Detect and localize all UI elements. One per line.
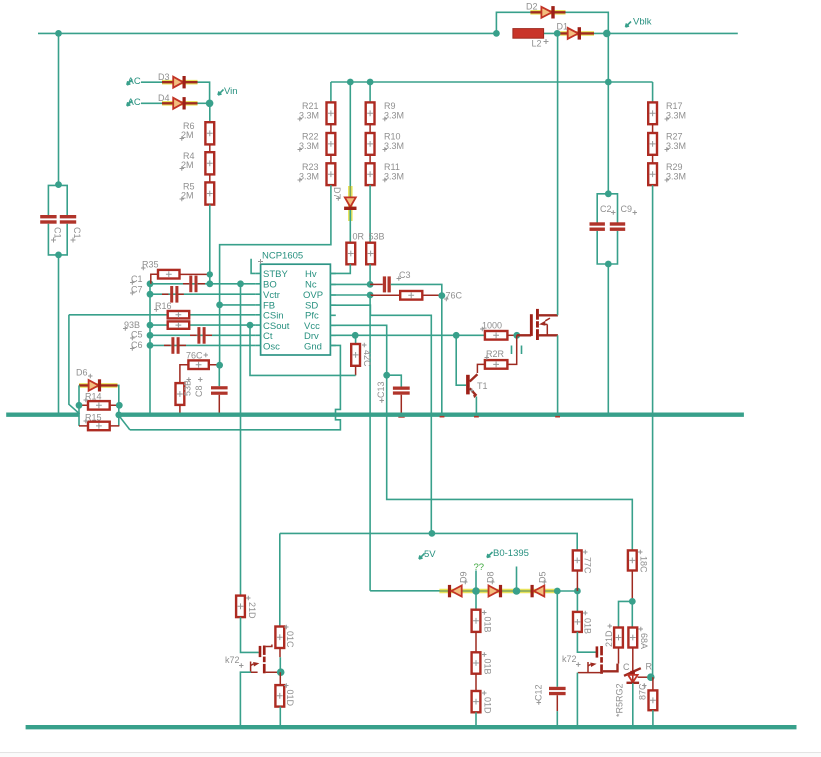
- svg-text:1000: 1000: [482, 321, 502, 331]
- capacitor C13: [387, 375, 410, 417]
- label R5RG2: [615, 683, 625, 717]
- diode D4: [162, 97, 198, 109]
- inductor L2: [513, 29, 544, 39]
- junction rail-R9chain: [367, 79, 374, 86]
- wire rail y=82: [331, 81, 653, 83]
- wire Vcc row riser x386: [330, 325, 632, 550]
- resistor 76C horizontal: [180, 360, 220, 383]
- resistor R16 lower: [168, 321, 190, 328]
- resistor 01B mid second: [472, 632, 481, 674]
- resistor 76C on OVP row: [370, 291, 442, 300]
- wire AC2 to D4: [141, 102, 162, 104]
- label K72 right: [562, 654, 581, 667]
- resistor 42C: [351, 335, 360, 375]
- IC U1 NCP1605 box: [261, 264, 331, 355]
- wire Q2 source to bottom bus: [240, 672, 251, 727]
- svg-text:01D: 01D: [483, 697, 493, 714]
- svg-text:k72: k72: [562, 654, 577, 664]
- resistor R21: [327, 102, 336, 124]
- label 01D left: [285, 690, 295, 707]
- label C5: [130, 330, 143, 341]
- svg-text:??: ??: [474, 562, 485, 573]
- label Vin: [218, 86, 238, 97]
- label R17 3.3M: [665, 101, 687, 121]
- svg-text:3.3M: 3.3M: [666, 172, 686, 182]
- svg-text:Osc: Osc: [263, 342, 280, 353]
- resistor 68A: [628, 601, 637, 667]
- svg-text:D3: D3: [158, 72, 170, 82]
- yellow highlight under diode D2: [530, 10, 565, 15]
- svg-text:3.3M: 3.3M: [666, 141, 686, 151]
- svg-text:Vin: Vin: [224, 86, 238, 97]
- wire R21 chain top corner: [330, 82, 332, 102]
- wire SD row jog to x431 riser: [330, 305, 431, 533]
- transistor Q1 main MOSFET: [517, 309, 558, 340]
- label 01B mid top: [483, 617, 493, 633]
- wire OVP node to diode row: [370, 590, 440, 592]
- junction 93B-x150: [147, 322, 154, 329]
- svg-text:R17: R17: [666, 101, 683, 111]
- diode D1: [560, 27, 594, 39]
- label D5: [538, 571, 548, 583]
- junction L2 left: [493, 30, 500, 37]
- label 1000: [480, 321, 502, 332]
- lead R17-R27: [652, 124, 654, 133]
- svg-text:3.3M: 3.3M: [299, 141, 319, 151]
- svg-text:R22: R22: [302, 132, 319, 142]
- label C9: [621, 204, 638, 215]
- wire D4 to Vin junction: [198, 102, 210, 104]
- wire Q3 source to bottom bus: [576, 673, 578, 728]
- label 01B right: [583, 618, 593, 634]
- net marks II: [512, 346, 522, 355]
- label R10 3.3M: [383, 132, 405, 152]
- diode D9: [448, 585, 462, 597]
- wire Vctr row: [150, 293, 255, 295]
- svg-text:D5: D5: [538, 571, 548, 583]
- yellow highlight under diode D7: [348, 186, 353, 221]
- svg-text:53B: 53B: [369, 232, 385, 242]
- wire R2R right to gate: [507, 335, 516, 364]
- svg-text:Drv: Drv: [304, 331, 319, 342]
- label C6: [130, 340, 143, 351]
- resistor R17: [648, 102, 657, 124]
- label AC upper: [127, 76, 141, 87]
- svg-text:68A: 68A: [639, 633, 649, 649]
- wire STBY stub L: [251, 259, 255, 274]
- svg-text:R27: R27: [666, 132, 683, 142]
- red lead ticks at ground bus: [440, 416, 445, 418]
- yellow highlight under diode D4: [162, 101, 198, 106]
- wire Vblk branch to R17: [652, 82, 654, 102]
- svg-text:01C: 01C: [285, 631, 295, 648]
- svg-text:Gnd: Gnd: [304, 342, 322, 353]
- ground bus upper: [6, 413, 744, 417]
- yellow highlight under diode D3: [162, 80, 198, 85]
- resistor 77C: [573, 550, 582, 591]
- wire riser x150 to ground bus: [149, 284, 151, 413]
- wire Gnd zigzag through bus: [130, 345, 341, 429]
- wire riser x219 FB to C8 node: [219, 305, 221, 365]
- lead R21-R22: [330, 124, 332, 133]
- label R9 3.3M: [383, 101, 405, 121]
- capacitor C1 on BO row: [183, 276, 205, 293]
- label C3: [397, 270, 411, 281]
- svg-text:D6: D6: [76, 368, 88, 378]
- svg-text:21D: 21D: [604, 630, 614, 647]
- resistor R15: [79, 422, 119, 431]
- resistor 18C: [628, 550, 637, 601]
- yellow highlight under diodes D9 D8 D5: [439, 589, 557, 594]
- svg-text:C1: C1: [53, 227, 63, 239]
- resistor 21D left: [236, 596, 245, 618]
- junction gate: [513, 332, 520, 339]
- resistor R35: [151, 270, 209, 284]
- label 93B: [123, 320, 140, 331]
- junction BO-Vin divider: [206, 280, 213, 287]
- wire CSin left leg and diagonal to bus: [69, 315, 80, 414]
- wire 18C feed from Vcc rail: [631, 549, 633, 551]
- diode D2: [530, 6, 565, 18]
- svg-text:3.3M: 3.3M: [299, 111, 319, 121]
- resistor 21D right: [614, 628, 623, 664]
- label R6 2M: [180, 121, 195, 141]
- svg-text:53B: 53B: [183, 380, 193, 396]
- label 21D left: [247, 602, 257, 619]
- junction OVP: [367, 292, 374, 299]
- lead R6-R4: [209, 144, 211, 152]
- svg-text:D7: D7: [332, 187, 342, 199]
- svg-text:C1: C1: [72, 227, 82, 239]
- label R29 3.3M: [665, 162, 687, 182]
- capacitor C8: [211, 365, 228, 412]
- label R35: [141, 260, 159, 271]
- label 76C node: [444, 291, 463, 302]
- lead R27-R29: [652, 155, 654, 164]
- wire D5 to 77C node: [557, 590, 578, 592]
- wire AC1 to D3: [141, 81, 162, 83]
- label R23 3.3M: [298, 162, 320, 182]
- wire R2R left to T1 collector: [477, 364, 485, 373]
- capacitor C5 on Ct row: [190, 327, 212, 344]
- svg-text:BO: BO: [263, 280, 277, 291]
- wire stub B0-1395: [516, 567, 518, 592]
- svg-text:Pfc: Pfc: [305, 311, 319, 322]
- label R11 3.3M: [383, 162, 405, 182]
- wire 01B to gate of Q3: [577, 632, 596, 652]
- label 01D mid bottom: [483, 697, 493, 714]
- capacitor C12: [549, 687, 566, 727]
- svg-text:R11: R11: [384, 162, 400, 172]
- wire 01C top feed: [279, 533, 281, 626]
- resistor 01D mid bottom: [472, 674, 481, 728]
- svg-text:R9: R9: [384, 101, 396, 111]
- label 77C: [583, 557, 593, 574]
- junction C2C9 bottom: [605, 261, 612, 268]
- wire C2 C9 riser x=608: [607, 33, 609, 193]
- wire 53B bottom to Nc row: [369, 264, 371, 284]
- resistor R9: [366, 102, 375, 124]
- svg-text:Vblk: Vblk: [633, 17, 652, 28]
- junction D1 cathode: [603, 30, 611, 38]
- junction rail-x608: [605, 79, 612, 86]
- svg-text:STBY: STBY: [263, 269, 288, 280]
- junction Ct-x150: [147, 332, 154, 339]
- capacitor C3: [370, 276, 442, 295]
- wire CSout to 42C bottom: [250, 325, 356, 375]
- label C1 row: [130, 274, 143, 285]
- resistor R5: [205, 182, 214, 204]
- label D8: [486, 571, 496, 583]
- wire Osc row: [150, 344, 255, 346]
- wire 21D branch from BO row down: [240, 284, 242, 596]
- wire top rail y=33: [38, 32, 496, 34]
- svg-text:k72: k72: [225, 655, 240, 665]
- svg-text:42C: 42C: [362, 350, 372, 367]
- svg-text:21D: 21D: [247, 602, 257, 619]
- junction CSout branch: [247, 322, 254, 329]
- label R16: [154, 301, 172, 312]
- bottom page edge strip: [0, 752, 821, 753]
- junction D9-D8: [472, 587, 480, 595]
- svg-text:3.3M: 3.3M: [384, 172, 404, 182]
- label C2: [600, 204, 616, 215]
- svg-text:C9: C9: [621, 204, 633, 214]
- label 5V: [419, 549, 436, 560]
- svg-text:0R: 0R: [353, 232, 365, 242]
- label NCP1605: [258, 251, 303, 265]
- resistor 87C: [649, 677, 658, 727]
- junction top-left: [55, 30, 62, 37]
- yellow highlight under diode D6: [79, 383, 118, 388]
- wire D1 cathode to right end: [594, 32, 738, 34]
- resistor chain 01B mid top: [472, 591, 481, 632]
- svg-text:01B: 01B: [483, 617, 493, 633]
- label 42C: [362, 350, 372, 367]
- junction C2C9 top: [605, 190, 612, 197]
- label R5 2M: [180, 182, 195, 202]
- label 76C: [186, 351, 208, 361]
- diode D3: [162, 76, 198, 88]
- wire BO row: [150, 283, 255, 285]
- svg-text:D8: D8: [486, 571, 496, 583]
- svg-text:C12: C12: [534, 684, 544, 701]
- resistor 1000: [485, 331, 517, 340]
- svg-text:D4: D4: [158, 93, 170, 103]
- wire CSin row: [69, 314, 255, 316]
- wire T1 emitter to bus: [475, 397, 477, 413]
- svg-text:C: C: [623, 662, 630, 672]
- junction FB: [216, 302, 223, 309]
- wire top rail L2 to D1: [544, 32, 560, 34]
- label Vblk: [626, 17, 652, 28]
- resistor R10: [366, 133, 375, 155]
- diode D7: [344, 197, 356, 210]
- capacitor C1 left plates: [40, 215, 56, 224]
- junction R14 right: [116, 402, 123, 409]
- svg-text:3.3M: 3.3M: [384, 141, 404, 151]
- junction Vin: [206, 100, 214, 108]
- label D6: [76, 368, 93, 379]
- wire 21D to gate of Q2: [241, 617, 259, 652]
- resistor 0R: [346, 243, 355, 265]
- label 68A: [639, 633, 649, 649]
- svg-text:D1: D1: [557, 22, 569, 32]
- resistor R16 upper: [168, 311, 190, 318]
- junction zener R node: [647, 673, 655, 681]
- wire Drv row to gate: [330, 334, 485, 336]
- wire D6 R14 R15 left column: [78, 385, 80, 426]
- capacitor C7 on Vctr row: [162, 286, 184, 303]
- capacitor C1 right plates: [60, 215, 76, 224]
- diode D5: [531, 585, 545, 597]
- junction bus right of R15: [115, 412, 122, 419]
- capacitor pair C2 C9 harness: [597, 194, 617, 413]
- svg-text:R29: R29: [666, 162, 683, 172]
- junction Vcc-C13: [383, 372, 390, 379]
- diode D6: [79, 379, 118, 391]
- resistor R29: [648, 163, 657, 185]
- resistor R6: [205, 122, 214, 144]
- wire R29 bottom long run to zener node: [652, 185, 654, 677]
- junction Q2 drain node: [277, 668, 285, 676]
- lead R10-R11: [369, 155, 371, 164]
- svg-text:77C: 77C: [583, 557, 593, 574]
- wire base drive down: [456, 335, 466, 385]
- svg-text:3.3M: 3.3M: [299, 172, 319, 182]
- wire D7 to 0R: [349, 210, 351, 243]
- transistor Q3 K72 right MOSFET: [578, 646, 618, 674]
- junction Vctr-x150: [147, 291, 154, 298]
- capacitor pair C1 C1 top harness: [48, 185, 67, 412]
- label D9: [459, 571, 469, 583]
- resistor R14: [79, 401, 119, 410]
- label T1: [470, 381, 488, 393]
- zener diode D10: [624, 667, 651, 683]
- lead R4-R5: [209, 174, 211, 182]
- svg-text:01D: 01D: [285, 690, 295, 707]
- resistor 01D left: [275, 672, 284, 727]
- label C8: [194, 385, 204, 397]
- junction x431 on y533: [429, 530, 436, 537]
- svg-text:C13: C13: [376, 381, 386, 398]
- wire D3 to Vin corner: [198, 82, 210, 103]
- label R22 3.3M: [298, 132, 320, 152]
- svg-text:NCP1605: NCP1605: [262, 251, 303, 262]
- wire R23 bottom to FB riser: [220, 185, 331, 305]
- wire D7 branch top: [349, 82, 351, 186]
- capacitor C9 plates: [610, 222, 625, 231]
- junction rail-D7: [347, 79, 354, 86]
- svg-text:D2: D2: [526, 2, 538, 12]
- wire C12 feed: [556, 591, 558, 687]
- junction 77C bottom: [574, 588, 581, 595]
- svg-text:B0-1395: B0-1395: [493, 548, 529, 559]
- label 21D right: [604, 630, 614, 647]
- lead R9-R10: [369, 124, 371, 133]
- label 87C: [638, 683, 648, 700]
- resistor R2R: [485, 360, 508, 369]
- ground bus lower: [26, 725, 797, 729]
- label 53B shunt: [183, 380, 193, 396]
- wire 0R bottom to Hv pin: [330, 264, 350, 273]
- capacitor C6 on Osc row: [164, 337, 186, 354]
- wire CSout 93B row: [150, 324, 255, 326]
- wire Vin junction to R6: [209, 103, 211, 122]
- svg-text:Hv: Hv: [305, 269, 317, 280]
- resistor R23: [327, 163, 336, 185]
- label AC lower: [127, 97, 141, 108]
- svg-text:C2: C2: [600, 204, 612, 214]
- svg-text:76C: 76C: [186, 351, 203, 361]
- wire R9 chain top: [369, 82, 371, 102]
- svg-text:C8: C8: [194, 385, 204, 397]
- pin stubs left: [255, 273, 260, 345]
- label C1 left: [53, 227, 63, 239]
- resistor R4: [205, 152, 214, 174]
- svg-text:3.3M: 3.3M: [666, 111, 686, 121]
- yellow highlight under diode D1: [560, 31, 594, 36]
- wire D2 branch: [496, 12, 608, 33]
- label R4 2M: [180, 151, 195, 171]
- wire 01C top rail y=533: [280, 533, 577, 550]
- svg-text:18C: 18C: [639, 556, 649, 573]
- junction Drv-42C: [352, 332, 359, 339]
- svg-text:R: R: [646, 662, 653, 672]
- svg-text:R21: R21: [302, 101, 319, 111]
- svg-text:Ct: Ct: [263, 331, 273, 342]
- junction D5 cathode: [554, 588, 561, 595]
- svg-text:R23: R23: [302, 162, 319, 172]
- transistor Q2 K72 left MOSFET: [251, 645, 281, 674]
- junction 18C bottom: [629, 598, 636, 605]
- lead R22-R23: [330, 155, 332, 164]
- label C7: [130, 285, 143, 296]
- svg-text:D9: D9: [459, 571, 469, 583]
- wire R11 to 53B resistor: [369, 185, 371, 243]
- label K72 left: [225, 655, 244, 668]
- junction C1 top: [55, 181, 62, 188]
- junction Nc-53B: [367, 281, 374, 288]
- resistor 01C: [275, 627, 284, 673]
- svg-text:L2: L2: [532, 39, 542, 49]
- wire OVP row: [330, 294, 370, 296]
- capacitor C2 plates: [590, 222, 605, 231]
- label C13: [376, 381, 386, 398]
- label 01C: [285, 631, 295, 648]
- wire FB row: [220, 304, 256, 306]
- wire diagonal bus to Gnd return: [119, 416, 130, 430]
- label R2R: [485, 349, 505, 360]
- wire drain up: [557, 33, 559, 315]
- wire source down to bus: [557, 335, 559, 412]
- junction 76C-C8: [216, 362, 223, 369]
- svg-text:01B: 01B: [583, 618, 593, 634]
- label R27 3.3M: [665, 132, 687, 152]
- label C1 right: [72, 227, 82, 239]
- svg-text:T1: T1: [477, 381, 488, 391]
- junction D8-D5: [513, 587, 521, 595]
- wire vertical from top-left junction down to C1 pair: [58, 33, 60, 184]
- junction D1 anode: [554, 30, 561, 37]
- wire zener to bottom bus: [632, 683, 634, 727]
- resistor R27: [648, 133, 657, 155]
- svg-text:01B: 01B: [483, 659, 493, 675]
- svg-text:OVP: OVP: [303, 290, 323, 301]
- resistor 53B shunt: [176, 383, 185, 412]
- resistor R11: [366, 163, 375, 185]
- svg-text:R10: R10: [384, 132, 401, 142]
